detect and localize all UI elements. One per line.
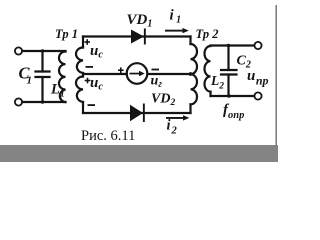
wire middle rail right — [148, 73, 191, 75]
input terminal bottom — [15, 98, 22, 105]
svg-text:Тр 1: Тр 1 — [55, 27, 78, 41]
current arrow i2 — [166, 117, 184, 119]
wire Tp2 primary top lead — [189, 37, 191, 45]
junction dot C1 bottom — [41, 100, 45, 104]
generator arrow — [130, 73, 140, 75]
wire middle rail left — [83, 73, 127, 75]
wire input top — [22, 50, 65, 52]
wire top rail — [83, 35, 191, 37]
plus sign lower secondary — [85, 80, 91, 82]
svg-text:Рис. 6.11: Рис. 6.11 — [81, 128, 135, 144]
junction dot Tp2 tap — [189, 72, 193, 76]
plus sign generator — [118, 69, 124, 71]
wire output top rail — [211, 44, 255, 46]
Tp1 secondary upper winding — [76, 48, 83, 74]
capacitor C2 — [227, 46, 229, 71]
plus sign top secondary — [84, 41, 90, 43]
junction dot C1 top — [41, 49, 45, 53]
svg-text:Тр 2: Тр 2 — [196, 27, 219, 41]
Tp1 secondary lower winding — [76, 77, 83, 103]
inductor L1 winding (Tp1 primary) — [59, 52, 66, 103]
output terminal top — [254, 42, 261, 49]
Tp2 primary bottom lead — [189, 104, 191, 113]
minus sign bottom — [88, 104, 96, 106]
diode VD1 — [131, 30, 144, 44]
generator circle U_g — [127, 63, 148, 84]
Tp1 secondary tap segment — [82, 73, 84, 77]
wire output bottom rail — [211, 95, 255, 97]
capacitor C1 — [41, 51, 43, 72]
current arrow i1 — [165, 30, 184, 32]
output terminal bottom — [254, 92, 261, 99]
minus sign generator — [152, 69, 160, 71]
gray bar bottom — [0, 145, 278, 162]
Tp1 secondary bottom lead — [82, 102, 84, 113]
Tp2 secondary winding L2 — [205, 46, 211, 92]
page border line right — [275, 5, 277, 145]
Tp2 secondary leads — [209, 92, 211, 96]
wire bottom rail — [83, 112, 191, 114]
junction dot C2 top — [227, 44, 231, 48]
input terminal top — [15, 47, 22, 54]
junction dot C2 bottom — [227, 94, 231, 98]
paper background — [0, 0, 278, 162]
minus sign upper — [86, 66, 94, 68]
wire input bottom — [22, 101, 65, 103]
Tp1 secondary top lead — [82, 37, 84, 48]
diode VD2 — [130, 105, 143, 121]
Tp2 primary winding — [191, 44, 198, 104]
